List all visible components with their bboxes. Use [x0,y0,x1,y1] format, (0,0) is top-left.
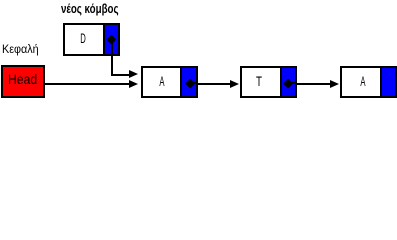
letter A2 [359,74,366,88]
node T box [240,66,297,98]
letter D [79,31,86,45]
wire: Head arrow horizontal [45,83,130,85]
blue pointer cell of T [282,68,295,96]
pointer dot of T [284,78,293,87]
cell divider of T [280,68,282,96]
letter T [254,74,262,88]
stem of A1 dot [190,82,197,84]
wire: A1 to T [197,83,231,85]
blue pointer cell of A2 [382,68,395,96]
arrowhead: T wire into A2 [330,80,339,88]
cell divider of D [103,25,105,54]
cell divider of A1 [180,68,182,96]
node A2 box (last) [340,66,397,98]
node A1 box [141,66,198,98]
arrowhead: A1 wire into T [230,80,239,88]
blue pointer cell of D [105,25,118,54]
letter A1 [159,74,166,88]
label "νέος κόμβος" [61,2,119,15]
arrowhead: Head arrow into A1 [129,80,138,88]
label "Κεφαλή" [2,43,39,55]
wire: D pointer horizontal [111,74,131,76]
pointer dot of D [107,35,116,44]
Head box [1,65,45,98]
new-node box D [63,23,120,56]
blue pointer cell of A1 [182,68,196,96]
wire: T to A2 [296,83,330,85]
label Head [8,72,37,86]
wire: D pointer vertical [111,40,113,76]
stem of T dot [289,82,296,84]
arrowhead: D pointer into A1 [129,70,138,78]
pointer dot of A1 [185,78,194,87]
cell divider of A2 [380,68,382,96]
